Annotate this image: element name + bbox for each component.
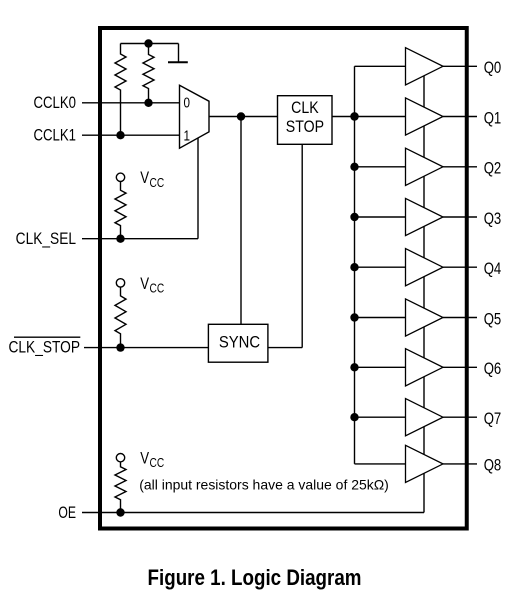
wire enable chain Q4-Q5	[423, 277, 425, 309]
wire buffer Q8 input tap	[355, 463, 406, 465]
op-amp-style 2:1 mux U1	[180, 85, 210, 148]
node bus tap Q5	[350, 313, 358, 321]
resistor R (CLK_STOP pull-up, 25k)	[115, 287, 126, 348]
node OE pull-up	[116, 508, 124, 516]
svg-text:Q5: Q5	[484, 310, 502, 329]
svg-text:0: 0	[183, 94, 190, 111]
svg-text:Q7: Q7	[484, 409, 502, 428]
wire enable chain Q7-Q8	[423, 427, 425, 455]
wire CLK STOP bottom to SYNC output return	[301, 144, 303, 347]
wire SYNC output	[268, 347, 302, 349]
resistor R (CLK_SEL pull-up, 25k)	[115, 182, 126, 239]
buffer U5 (output Q1)	[406, 98, 444, 135]
wire buffer Q4 input tap	[355, 266, 406, 268]
buffer U8 (output Q4)	[406, 249, 444, 286]
node top rail	[144, 39, 152, 47]
svg-text:SYNC: SYNC	[219, 334, 260, 352]
wire buffer Q1 output to pin	[443, 116, 477, 118]
CLK STOP block U2	[278, 96, 333, 145]
svg-text:CCLK0: CCLK0	[33, 94, 76, 113]
wire buffer Q5 input tap	[355, 317, 406, 319]
buffer U10 (output Q6)	[406, 349, 444, 386]
wire enable chain Q2-Q3	[423, 176, 425, 207]
Vcc terminal circle for OE pull-up	[116, 454, 124, 462]
svg-text:CLK: CLK	[291, 99, 319, 117]
node bus tap Q3	[350, 213, 358, 221]
svg-text:Q8: Q8	[484, 456, 502, 475]
wire down to termination bar	[178, 44, 180, 63]
svg-text:CLK_STOP: CLK_STOP	[8, 338, 80, 356]
wire buffer Q2 input tap	[355, 166, 406, 168]
wire OE input along bottom	[82, 512, 424, 514]
Vcc terminal circle for CLK_SEL pull-up	[116, 173, 124, 181]
wire node to SYNC top	[240, 117, 242, 325]
wire CCLK0 input to mux pin 0	[82, 102, 180, 104]
termination bar symbol	[168, 61, 188, 63]
wire clock bus vertical	[354, 66, 356, 464]
buffer U11 (output Q7)	[406, 399, 444, 436]
node bus tap Q1	[350, 112, 358, 120]
wire enable chain Q5-Q6	[423, 327, 425, 358]
svg-text:OE: OE	[58, 504, 76, 522]
buffer U7 (output Q3)	[406, 198, 444, 235]
node CCLK1/R1	[116, 131, 124, 139]
wire CLK_SEL input	[82, 238, 198, 240]
wire buffer Q4 output to pin	[443, 266, 477, 268]
resistor R (OE pull-up, 25k)	[115, 462, 126, 513]
wire enable chain Q3-Q4	[423, 226, 425, 257]
resistor R2 (CCLK0 input, 25k)	[143, 44, 154, 103]
buffer U9 (output Q5)	[406, 299, 444, 336]
buffer U12 (output Q8)	[406, 445, 444, 482]
wire buffer Q3 input tap	[355, 216, 406, 218]
node bus / CLK STOP out	[350, 112, 358, 120]
svg-text:CLK_SEL: CLK_SEL	[16, 230, 76, 248]
svg-text:(all input resistors have a va: (all input resistors have a value of 25k…	[139, 477, 389, 493]
svg-text:CCLK1: CCLK1	[33, 126, 76, 145]
svg-text:STOP: STOP	[286, 118, 324, 136]
wire buffer Q3 output to pin	[443, 216, 477, 218]
svg-text:Q4: Q4	[484, 259, 502, 278]
SYNC block U3	[208, 324, 268, 362]
wire CCLK1 input to mux pin 1	[82, 134, 180, 136]
resistor R1 (CCLK1 input, 25k)	[115, 44, 126, 136]
wire enable chain Q1-Q2	[423, 126, 425, 157]
node CLK_STOP pull-up	[116, 343, 124, 351]
wire buffer Q0 output to pin	[443, 65, 477, 67]
svg-text:Q3: Q3	[484, 209, 502, 228]
wire buffer Q6 output to pin	[443, 366, 477, 368]
buffer U4 (output Q0)	[406, 48, 444, 85]
svg-text:1: 1	[183, 127, 190, 144]
chip boundary border	[100, 28, 467, 529]
wire CLK_SEL to mux select	[197, 138, 199, 239]
wire mux output to CLK STOP block	[209, 116, 278, 118]
buffer U6 (output Q2)	[406, 148, 444, 185]
wire buffer Q7 input tap	[355, 416, 406, 418]
svg-text:Q2: Q2	[484, 159, 502, 178]
svg-text:Figure 1. Logic Diagram: Figure 1. Logic Diagram	[148, 566, 362, 591]
wire CLK STOP output to bus	[332, 116, 355, 118]
svg-text:Q0: Q0	[484, 59, 502, 78]
node bus tap Q7	[350, 413, 358, 421]
wire buffer Q2 output to pin	[443, 166, 477, 168]
wire buffer Q8 output to pin	[443, 463, 477, 465]
node bus tap Q2	[350, 163, 358, 171]
node CCLK0/R2	[144, 99, 152, 107]
wire buffer Q6 input tap	[355, 366, 406, 368]
Vcc terminal circle for CLK_STOP pull-up	[116, 279, 124, 287]
overline for CLK_STOP	[14, 336, 80, 338]
svg-text:Q1: Q1	[484, 109, 502, 128]
wire buffer Q7 output to pin	[443, 416, 477, 418]
svg-text:Q6: Q6	[484, 360, 502, 379]
wire buffer Q0 input tap	[355, 65, 406, 67]
wire OE up to buffer enable chain	[423, 473, 425, 512]
wire enable chain Q0-Q1	[423, 76, 425, 107]
wire buffer Q5 output to pin	[443, 317, 477, 319]
node bus tap Q6	[350, 363, 358, 371]
node CLK_SEL pull-up	[116, 235, 124, 243]
wire buffer Q1 input tap	[355, 116, 406, 118]
wire CLK_STOP input to SYNC	[84, 347, 208, 349]
node bus tap Q4	[350, 263, 358, 271]
node mux out / SYNC	[237, 112, 245, 120]
wire top resistor common rail	[121, 43, 179, 45]
wire enable chain Q6-Q7	[423, 377, 425, 408]
